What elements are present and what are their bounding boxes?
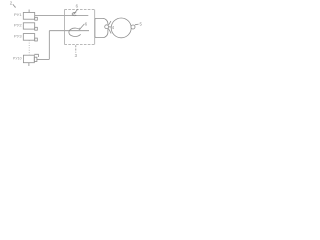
junction nozzle circle 4 <box>105 25 109 29</box>
chamber left lobe <box>95 18 108 37</box>
junction connector lower <box>108 28 111 33</box>
dashed box 3 top edge <box>64 9 94 11</box>
junction mask <box>104 24 109 29</box>
wire box PY10 to bus <box>37 58 49 60</box>
box PY3 nub <box>35 38 38 41</box>
svg-text:2: 2 <box>10 1 13 6</box>
outlet circle 5 <box>131 25 135 29</box>
box PY3 <box>23 34 34 41</box>
chamber right lobe <box>111 18 131 38</box>
dashed box 3 right edge <box>94 10 96 45</box>
box PY1 <box>23 13 34 20</box>
box PY2 <box>23 23 34 29</box>
wire bus to dashed box input 2 <box>49 30 89 32</box>
svg-text:РУ1: РУ1 <box>14 12 22 17</box>
element 6b loop <box>69 28 81 36</box>
svg-text:РУ10: РУ10 <box>13 57 22 61</box>
box PY10 top-right bracket <box>34 54 38 57</box>
box PY2 nub <box>35 27 38 30</box>
wire box PY1 to dashed box <box>35 15 89 17</box>
dotted line between PY3 and PY10 <box>28 40 30 55</box>
box PY10 <box>23 55 34 63</box>
box PY1 nub <box>35 17 38 20</box>
element 6a loop <box>72 13 76 16</box>
svg-text:6: 6 <box>76 4 79 9</box>
leader to label 4 <box>109 26 112 28</box>
box PY1 top stub <box>28 10 30 13</box>
svg-text:5: 5 <box>140 22 143 27</box>
leader to label 5 <box>135 23 139 26</box>
leader to label 3 <box>75 45 77 52</box>
svg-text:РУ3: РУ3 <box>14 34 22 39</box>
svg-text:3: 3 <box>75 53 78 58</box>
junction connector upper <box>108 21 111 25</box>
element 6b arrow <box>80 24 84 29</box>
label 2 <box>10 1 16 8</box>
dashed box 3 left edge <box>63 10 65 45</box>
box PY10 nub <box>34 57 37 61</box>
dashed box 3 bottom edge <box>64 43 94 45</box>
svg-text:РУ2: РУ2 <box>14 23 22 28</box>
svg-text:4: 4 <box>112 25 115 30</box>
svg-text:6: 6 <box>85 22 88 27</box>
element 6a arrow <box>74 9 78 14</box>
wire bus vertical <box>48 31 50 60</box>
box PY10 bottom stub <box>28 63 30 66</box>
